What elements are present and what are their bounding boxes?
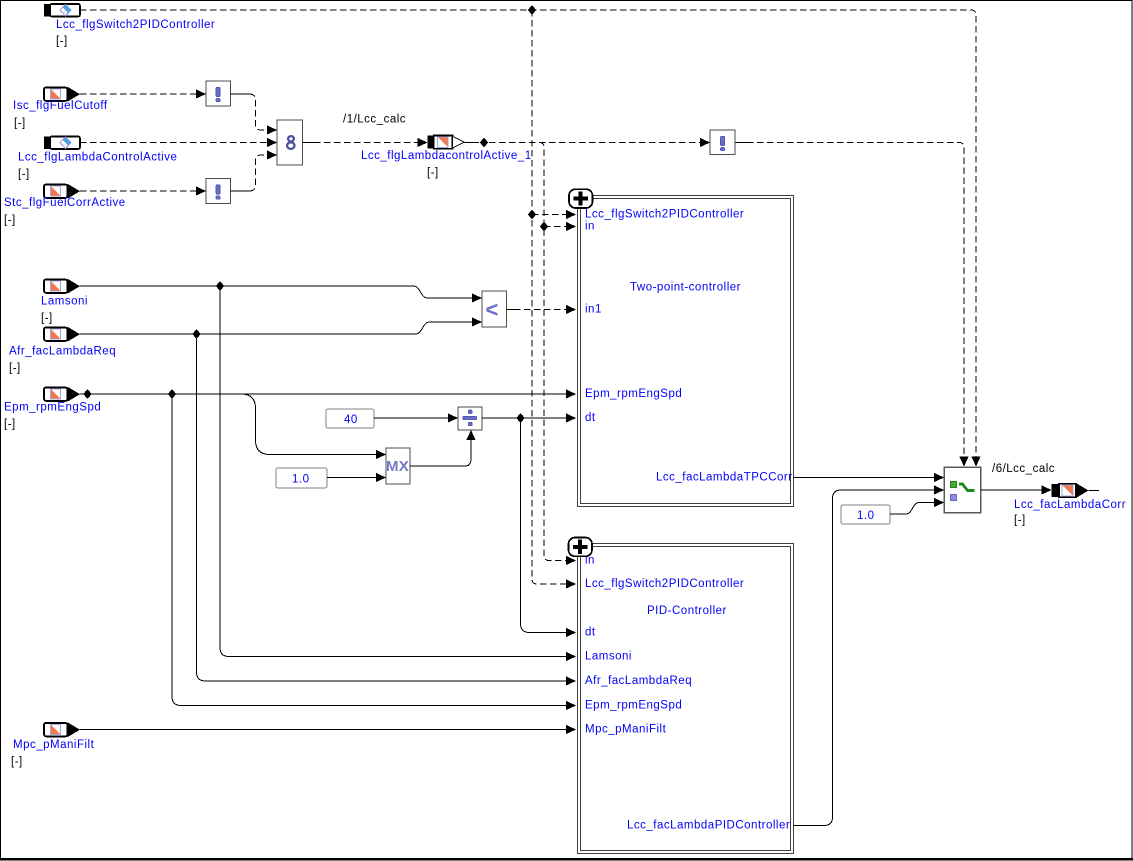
wire branch down x544 xyxy=(539,143,566,561)
output Lcc_facLambdaCorr xyxy=(1014,483,1126,526)
svg-text:Epm_rpmEngSpd: Epm_rpmEngSpd xyxy=(4,401,101,413)
svg-text:Epm_rpmEngSpd: Epm_rpmEngSpd xyxy=(585,388,682,400)
node junction x532 TPC branch xyxy=(528,210,536,220)
wire Mpc to PID xyxy=(80,729,566,731)
output Lcc_flgLambdacontrolActive_1 xyxy=(361,136,532,179)
operator less-than xyxy=(482,291,507,327)
arrow into less-than in1 xyxy=(472,293,482,302)
arrow into PID port Epm_rpmEngSpd xyxy=(566,701,576,710)
operator AND xyxy=(277,120,303,165)
arrow into TPC port in xyxy=(566,222,576,231)
svg-text:Lcc_facLambdaTPCCorr: Lcc_facLambdaTPCCorr xyxy=(656,471,793,483)
svg-text:dt: dt xyxy=(585,412,596,424)
arrow into TPC port in1 xyxy=(566,305,576,314)
wire Lamsoni xyxy=(80,286,473,298)
arrow into switch in3 xyxy=(934,498,944,507)
svg-text:Epm_rpmEngSpd: Epm_rpmEngSpd xyxy=(585,699,682,711)
arrow into MX in1 xyxy=(376,450,386,459)
arrow into divide bottom xyxy=(466,430,475,440)
arrow into PID port in xyxy=(566,556,576,565)
arrow into AND in1 xyxy=(267,125,277,134)
svg-text:Afr_facLambdaReq: Afr_facLambdaReq xyxy=(585,675,692,687)
wire Lamsoni down to PID xyxy=(220,286,566,657)
input Lcc_flgSwitch2PIDController xyxy=(44,4,215,47)
literal 1.0 MX xyxy=(276,468,327,488)
svg-text:Two-point-controller: Two-point-controller xyxy=(630,282,741,294)
svg-text:1.0: 1.0 xyxy=(857,510,875,522)
wire NOT1 to AND xyxy=(231,93,250,95)
svg-text:<: < xyxy=(486,297,499,322)
hierarchy plus icon PID xyxy=(569,538,593,557)
node junction divide out xyxy=(516,413,524,423)
input Stc_flgFuelCorrActive xyxy=(4,184,126,227)
arrow into output Lcc_facLambdaCorr xyxy=(1042,485,1052,494)
wire 1.0 to MX xyxy=(327,477,377,479)
wire Epm branch to MX xyxy=(241,394,377,455)
svg-text:[-]: [-] xyxy=(1014,514,1026,526)
operator NOT3 xyxy=(710,130,735,155)
literal 1.0 switch xyxy=(841,505,890,524)
wire Epm to TPC xyxy=(80,393,566,395)
arrow into switch top right xyxy=(971,457,980,467)
arrow into TPC port dt xyxy=(566,413,576,422)
input Afr_facLambdaReq xyxy=(9,327,116,375)
wire NOT2 to AND xyxy=(231,190,250,192)
svg-text:[-]: [-] xyxy=(14,118,26,130)
svg-text:dt: dt xyxy=(585,626,596,638)
svg-text:[-]: [-] xyxy=(56,35,68,47)
arrow into PID port Lamsoni xyxy=(566,652,576,661)
arrow into NOT2 xyxy=(196,186,206,195)
svg-text:[-]: [-] xyxy=(427,167,439,179)
node junction Epm 1 xyxy=(83,389,91,399)
wire less-than output to TPC in1 xyxy=(507,309,515,311)
arrow into PID port Mpc_pManiFilt xyxy=(566,725,576,734)
svg-text:MX: MX xyxy=(386,458,409,475)
svg-text:Lcc_flgLambdaControlActive: Lcc_flgLambdaControlActive xyxy=(18,151,177,163)
svg-text:Lcc_flgSwitch2PIDController: Lcc_flgSwitch2PIDController xyxy=(56,19,215,31)
wire AND output xyxy=(303,142,315,144)
operator NOT2 xyxy=(206,179,231,204)
wire Afr xyxy=(80,322,473,334)
arrow into switch top left xyxy=(959,457,968,467)
arrow into TPC port Lcc_flgSwitch2PIDController xyxy=(566,210,576,219)
wire branch to TPC port in xyxy=(544,226,566,228)
svg-text:Lcc_facLambdaPIDController: Lcc_facLambdaPIDController xyxy=(627,820,790,832)
wire LambdaControlActive to AND xyxy=(80,142,268,144)
operator switch xyxy=(944,467,981,513)
wire TPC output to switch xyxy=(794,477,936,479)
wire Epm down to PID xyxy=(172,394,566,706)
svg-text:/1/Lcc_calc: /1/Lcc_calc xyxy=(343,114,406,126)
operator NOT1 xyxy=(206,81,231,106)
svg-text:Isc_flgFuelCutoff: Isc_flgFuelCutoff xyxy=(13,100,108,112)
arrow into switch in2 xyxy=(934,485,944,494)
svg-text:Lcc_flgSwitch2PIDController: Lcc_flgSwitch2PIDController xyxy=(585,208,744,220)
wire divide output xyxy=(482,417,566,419)
wire 40 to divide xyxy=(374,417,449,419)
arrow into switch in1 xyxy=(934,473,944,482)
svg-text:[-]: [-] xyxy=(41,312,53,324)
svg-text:[-]: [-] xyxy=(4,418,16,430)
svg-text:[-]: [-] xyxy=(18,168,30,180)
node junction Afr xyxy=(192,329,200,339)
svg-text:Lcc_flgSwitch2PIDController: Lcc_flgSwitch2PIDController xyxy=(585,578,744,590)
arrow into PID port Afr_facLambdaReq xyxy=(566,676,576,685)
wire 1.0 to switch xyxy=(890,503,935,515)
svg-text:[-]: [-] xyxy=(11,756,23,768)
arrow into AND in3 xyxy=(267,150,277,159)
wire junction to NOT3 xyxy=(489,142,701,144)
wire vertical x532 dashed xyxy=(532,10,566,584)
svg-text:40: 40 xyxy=(344,414,358,426)
node junction after output xyxy=(480,138,488,148)
wire Isc to NOT1 xyxy=(80,93,198,95)
input Epm_rpmEngSpd xyxy=(4,387,101,431)
svg-text:Lamsoni: Lamsoni xyxy=(41,295,88,307)
input Lcc_flgLambdaControlActive xyxy=(18,137,177,181)
svg-text:PID-Controller: PID-Controller xyxy=(647,605,727,617)
arrow into output block xyxy=(418,138,428,147)
svg-text:1.0: 1.0 xyxy=(292,473,310,485)
wire NOT3 output to switch xyxy=(736,142,748,144)
hierarchy plus icon TPC xyxy=(569,189,593,208)
wire PID output up to switch xyxy=(794,490,936,826)
block Two-point-controller xyxy=(578,196,794,507)
svg-text:[-]: [-] xyxy=(4,214,16,226)
arrow into NOT1 xyxy=(196,89,206,98)
arrow into PID port Lcc_flgSwitch2PIDController xyxy=(566,579,576,588)
svg-text:Lcc_flgLambdacontrolActive_1: Lcc_flgLambdacontrolActive_1 xyxy=(361,150,532,162)
svg-text:Lcc_facLambdaCorr: Lcc_facLambdaCorr xyxy=(1014,499,1126,511)
node junction Lamsoni xyxy=(216,281,224,291)
wire dt down to PID xyxy=(521,418,567,633)
svg-text:in1: in1 xyxy=(585,303,602,315)
svg-text:Mpc_pManiFilt: Mpc_pManiFilt xyxy=(13,739,95,751)
literal 40 xyxy=(326,409,374,428)
operator MX maximum xyxy=(386,448,410,484)
node junction x544 TPC in xyxy=(540,222,548,232)
arrow into MX in2 xyxy=(376,473,386,482)
svg-text:Afr_facLambdaReq: Afr_facLambdaReq xyxy=(9,345,116,357)
wire switch output xyxy=(981,489,1044,491)
svg-text:Mpc_pManiFilt: Mpc_pManiFilt xyxy=(585,723,667,735)
arrow into PID port dt xyxy=(566,628,576,637)
wire branch to TPC port Lcc_flgSwitch2PIDController xyxy=(532,214,566,216)
svg-text:Lamsoni: Lamsoni xyxy=(585,650,632,662)
arrow into TPC port Epm_rpmEngSpd xyxy=(566,389,576,398)
wire Lcc_flgSwitch2PIDController top dashed xyxy=(80,10,976,457)
node junction top xyxy=(528,5,536,15)
input Isc_flgFuelCutoff xyxy=(13,87,108,130)
arrow into divide xyxy=(448,413,458,422)
arrow into NOT3 xyxy=(700,138,710,147)
operator divide xyxy=(458,407,482,430)
block PID-Controller xyxy=(578,544,794,854)
svg-text:/6/Lcc_calc: /6/Lcc_calc xyxy=(992,463,1055,475)
svg-text:Stc_flgFuelCorrActive: Stc_flgFuelCorrActive xyxy=(4,197,126,209)
wire MX output to divide xyxy=(410,439,471,466)
arrow into AND in2 xyxy=(267,138,277,147)
arrow into less-than in2 xyxy=(472,317,482,326)
node junction Epm 2 xyxy=(168,389,176,399)
svg-text:[-]: [-] xyxy=(9,362,21,374)
input Lamsoni xyxy=(41,279,88,325)
wire output to junction xyxy=(465,142,480,144)
input Mpc_pManiFilt xyxy=(11,722,95,768)
wire Afr down to PID xyxy=(197,334,567,681)
wire Stc to NOT2 xyxy=(80,190,198,192)
svg-text:in: in xyxy=(585,220,595,232)
